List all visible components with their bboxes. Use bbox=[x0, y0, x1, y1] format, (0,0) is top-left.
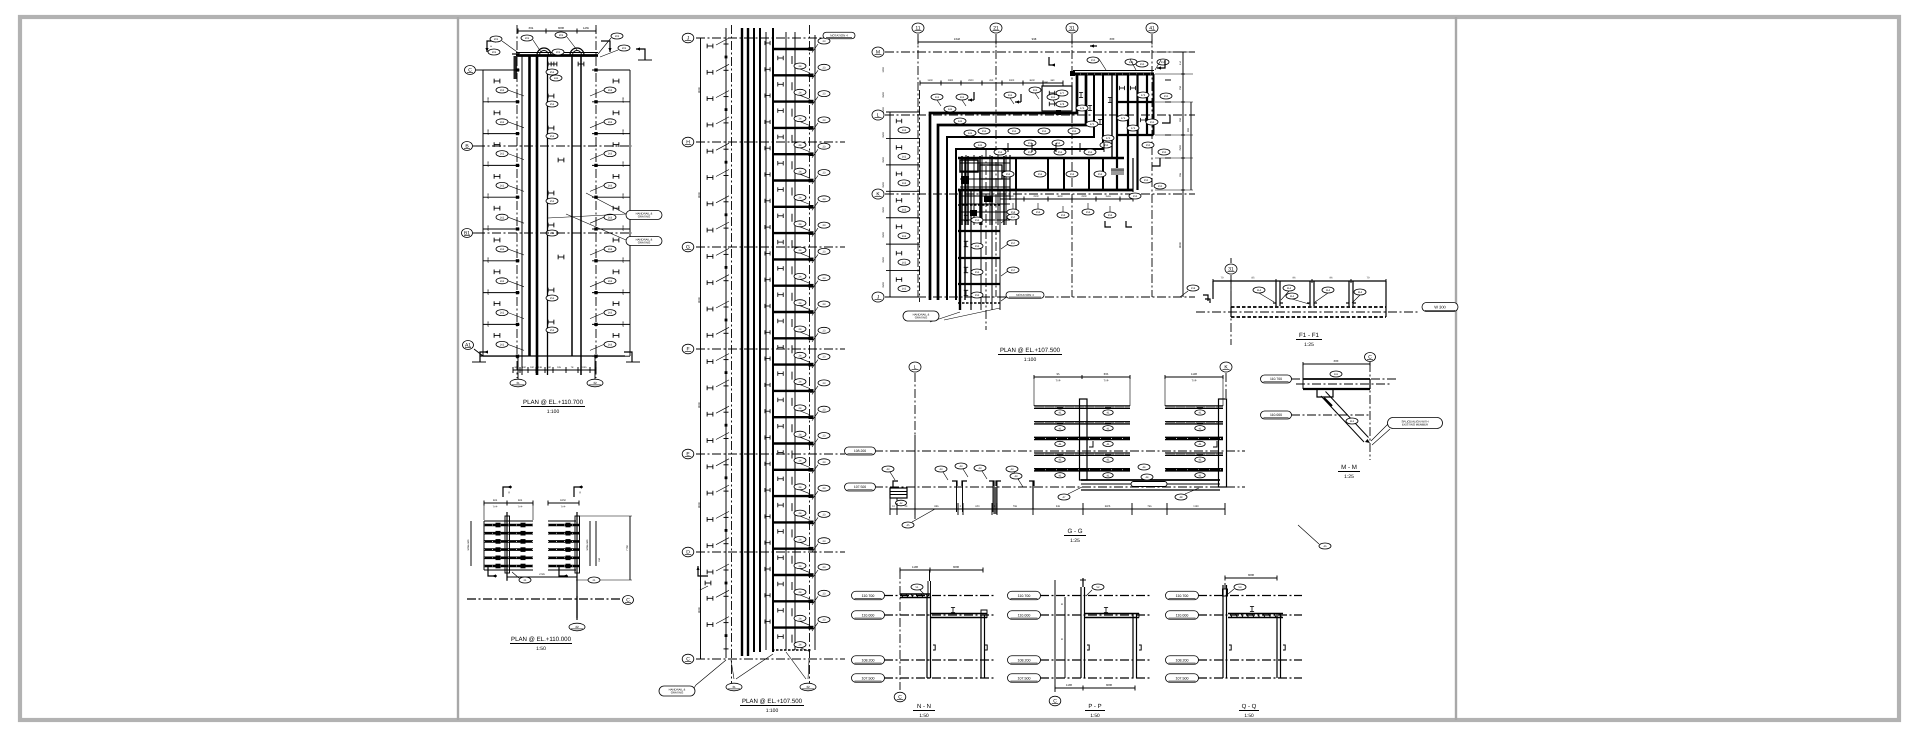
W300 stadium F1 bbox=[1422, 303, 1458, 312]
svg-text:1000: 1000 bbox=[882, 67, 885, 73]
svg-text:152: 152 bbox=[1070, 173, 1075, 176]
svg-text:TYP: TYP bbox=[561, 506, 566, 509]
svg-text:Q - Q: Q - Q bbox=[1242, 703, 1257, 710]
svg-text:151: 151 bbox=[998, 151, 1003, 154]
G-G body bbox=[914, 373, 916, 435]
svg-text:160: 160 bbox=[530, 366, 535, 369]
svg-text:1:50: 1:50 bbox=[1090, 713, 1100, 719]
svg-text:262: 262 bbox=[500, 312, 505, 315]
grid bubble G center strip bbox=[682, 242, 694, 252]
svg-text:174: 174 bbox=[1080, 107, 1085, 110]
svg-text:2900: 2900 bbox=[948, 79, 954, 82]
notation box center top bbox=[823, 32, 855, 39]
svg-text:836: 836 bbox=[934, 505, 939, 508]
svg-text:155: 155 bbox=[1056, 142, 1061, 145]
bottom boundary left plan bbox=[480, 355, 625, 357]
svg-text:2000: 2000 bbox=[622, 257, 625, 263]
svg-text:1100: 1100 bbox=[1066, 683, 1072, 687]
callout leaders top bbox=[502, 41, 520, 54]
svg-text:201: 201 bbox=[494, 38, 499, 41]
notation box L-plan bbox=[1006, 292, 1044, 299]
svg-text:155: 155 bbox=[1012, 130, 1017, 133]
grid bubble C M-M bbox=[1365, 353, 1376, 362]
svg-text:114: 114 bbox=[1257, 289, 1262, 292]
svg-text:110.000: 110.000 bbox=[1176, 613, 1189, 617]
svg-text:160: 160 bbox=[547, 366, 552, 369]
bottom callout 31 bbox=[510, 379, 526, 387]
svg-text:2900: 2900 bbox=[1009, 79, 1015, 82]
svg-text:2500: 2500 bbox=[882, 257, 885, 263]
svg-text:251: 251 bbox=[550, 200, 555, 203]
svg-text:155: 155 bbox=[1072, 130, 1077, 133]
svg-text:153: 153 bbox=[1036, 211, 1041, 214]
svg-text:365: 365 bbox=[1104, 372, 1109, 376]
grid line B across bbox=[476, 145, 632, 147]
grid bubble C N-N bbox=[894, 692, 906, 702]
grid bubble K L-plan left bbox=[872, 189, 884, 199]
svg-text:165: 165 bbox=[557, 366, 562, 369]
svg-text:201: 201 bbox=[525, 37, 530, 40]
bottom callout 32 bbox=[587, 379, 603, 387]
svg-text:8000: 8000 bbox=[698, 297, 701, 303]
bottom dim row bbox=[513, 369, 596, 371]
svg-text:141: 141 bbox=[968, 132, 973, 135]
left panel divider bbox=[457, 17, 459, 720]
svg-text:162: 162 bbox=[902, 288, 907, 291]
callout oval bbox=[611, 33, 623, 39]
svg-text:2000: 2000 bbox=[487, 97, 490, 103]
svg-text:NOTATION 4: NOTATION 4 bbox=[1016, 293, 1034, 297]
svg-text:241: 241 bbox=[554, 77, 559, 80]
svg-text:156: 156 bbox=[975, 271, 980, 274]
grid bubble L G-G bbox=[909, 362, 921, 372]
grid bubble H center strip bbox=[682, 137, 694, 147]
svg-text:263: 263 bbox=[608, 280, 613, 283]
icon under beam bbox=[551, 62, 557, 67]
svg-text:926: 926 bbox=[493, 499, 498, 502]
svg-text:1:100: 1:100 bbox=[1024, 357, 1037, 363]
svg-text:201: 201 bbox=[559, 34, 564, 37]
svg-text:1465: 1465 bbox=[583, 26, 590, 30]
svg-text:M - M: M - M bbox=[1341, 464, 1357, 471]
svg-text:114: 114 bbox=[1358, 291, 1363, 294]
svg-text:3600: 3600 bbox=[1029, 79, 1035, 82]
svg-text:1:25: 1:25 bbox=[1344, 474, 1354, 480]
svg-text:1346: 1346 bbox=[954, 37, 961, 41]
svg-text:2900: 2900 bbox=[1033, 195, 1039, 198]
svg-text:262: 262 bbox=[500, 185, 505, 188]
svg-text:262: 262 bbox=[500, 216, 505, 219]
svg-text:2000: 2000 bbox=[487, 289, 490, 295]
grid bubble J center strip bbox=[682, 33, 694, 43]
svg-text:F1 - F1: F1 - F1 bbox=[1299, 332, 1319, 339]
svg-text:2900: 2900 bbox=[1081, 195, 1087, 198]
svg-text:1190: 1190 bbox=[1191, 372, 1197, 376]
svg-text:NOTATION 4: NOTATION 4 bbox=[830, 34, 848, 38]
svg-text:5786+500: 5786+500 bbox=[467, 539, 470, 550]
svg-text:263: 263 bbox=[608, 89, 613, 92]
section N-N body bbox=[884, 595, 995, 597]
svg-text:112: 112 bbox=[1350, 420, 1355, 423]
svg-text:263: 263 bbox=[608, 153, 613, 156]
svg-text:262: 262 bbox=[500, 280, 505, 283]
svg-text:2500: 2500 bbox=[882, 182, 885, 188]
svg-text:153: 153 bbox=[1086, 211, 1091, 214]
svg-text:1:25: 1:25 bbox=[1070, 538, 1080, 544]
svg-text:EXISTING MEMBER: EXISTING MEMBER bbox=[1402, 423, 1428, 427]
svg-text:262: 262 bbox=[500, 121, 505, 124]
svg-text:155: 155 bbox=[1158, 185, 1163, 188]
svg-text:251: 251 bbox=[550, 297, 555, 300]
svg-text:TYP: TYP bbox=[1192, 380, 1197, 383]
svg-text:3600: 3600 bbox=[558, 26, 565, 30]
svg-text:114: 114 bbox=[1287, 287, 1292, 290]
svg-text:155: 155 bbox=[1140, 63, 1145, 66]
svg-text:162: 162 bbox=[902, 129, 907, 132]
svg-text:8000: 8000 bbox=[1179, 242, 1182, 248]
section cut top-right bbox=[601, 41, 610, 52]
svg-text:157: 157 bbox=[1011, 269, 1016, 272]
svg-text:1:100: 1:100 bbox=[547, 409, 560, 415]
svg-text:8000: 8000 bbox=[698, 502, 701, 508]
svg-text:3825: 3825 bbox=[1105, 505, 1111, 508]
svg-text:161: 161 bbox=[960, 96, 965, 99]
handrail grating callout center bbox=[659, 686, 695, 696]
svg-text:262: 262 bbox=[500, 344, 505, 347]
plan 110.000 body bbox=[484, 524, 533, 527]
svg-text:155: 155 bbox=[1091, 59, 1096, 62]
section cut right upper bbox=[636, 49, 645, 60]
svg-text:8000: 8000 bbox=[698, 402, 701, 408]
svg-text:107.500: 107.500 bbox=[862, 676, 875, 680]
svg-text:263: 263 bbox=[608, 312, 613, 315]
left plan body bbox=[518, 30, 596, 32]
svg-text:1:50: 1:50 bbox=[1244, 713, 1254, 719]
svg-text:620: 620 bbox=[975, 505, 980, 508]
svg-text:136: 136 bbox=[538, 366, 543, 369]
splice callout M-M bbox=[1388, 418, 1443, 429]
svg-text:2000: 2000 bbox=[487, 193, 490, 199]
svg-text:251: 251 bbox=[550, 103, 555, 106]
center callout 32 bbox=[800, 683, 816, 691]
L-plan body bbox=[918, 41, 1152, 43]
svg-text:2500: 2500 bbox=[882, 282, 885, 288]
section cut bottom-right bbox=[624, 352, 632, 362]
svg-text:156: 156 bbox=[975, 219, 980, 222]
svg-text:2000: 2000 bbox=[622, 97, 625, 103]
grid bubble 41 L-plan top bbox=[1146, 23, 1158, 33]
level 108.200 G-G bbox=[845, 447, 876, 455]
grid bubble A1 left plan bbox=[463, 341, 474, 350]
callout oval bbox=[488, 49, 500, 55]
svg-text:TYP: TYP bbox=[518, 506, 523, 509]
svg-text:7500: 7500 bbox=[1179, 145, 1182, 151]
svg-text:114: 114 bbox=[1326, 289, 1331, 292]
svg-text:998: 998 bbox=[1032, 37, 1037, 41]
svg-text:2500: 2500 bbox=[882, 92, 885, 98]
svg-text:B: B bbox=[1061, 603, 1063, 606]
section cut bottom-left bbox=[480, 352, 488, 362]
svg-text:178: 178 bbox=[1060, 103, 1065, 106]
leader line mid plan bbox=[548, 214, 626, 218]
level 110.700 M-M bbox=[1261, 375, 1292, 383]
svg-text:155: 155 bbox=[1133, 195, 1138, 198]
svg-text:177: 177 bbox=[1060, 92, 1065, 95]
svg-text:8000: 8000 bbox=[698, 87, 701, 93]
svg-text:108.200: 108.200 bbox=[854, 449, 866, 453]
center strip body bbox=[696, 37, 845, 39]
svg-text:110.700: 110.700 bbox=[1270, 377, 1282, 381]
svg-text:2000: 2000 bbox=[487, 161, 490, 167]
svg-text:262: 262 bbox=[500, 89, 505, 92]
svg-text:161: 161 bbox=[1051, 96, 1056, 99]
grid bubble 31 F1 bbox=[1225, 264, 1237, 274]
svg-text:201: 201 bbox=[556, 51, 561, 54]
svg-text:3600: 3600 bbox=[953, 565, 960, 569]
svg-text:2900: 2900 bbox=[968, 79, 974, 82]
grid bubble 31 L-plan top bbox=[1066, 23, 1078, 33]
svg-text:600: 600 bbox=[1110, 37, 1115, 41]
svg-text:2745: 2745 bbox=[539, 573, 545, 576]
svg-text:160: 160 bbox=[522, 366, 527, 369]
svg-text:2500: 2500 bbox=[882, 132, 885, 138]
svg-text:PLAN @ EL.+107.500: PLAN @ EL.+107.500 bbox=[1000, 347, 1061, 354]
svg-text:110.700: 110.700 bbox=[1018, 594, 1031, 598]
svg-text:107.500: 107.500 bbox=[1176, 676, 1189, 680]
svg-text:PLAN @ EL.+107.500: PLAN @ EL.+107.500 bbox=[742, 698, 803, 705]
svg-text:765: 765 bbox=[1179, 172, 1182, 177]
svg-text:1100: 1100 bbox=[912, 565, 918, 569]
svg-text:263: 263 bbox=[608, 121, 613, 124]
svg-text:251: 251 bbox=[550, 329, 555, 332]
center strip bottom bbox=[772, 649, 812, 651]
svg-text:2000: 2000 bbox=[487, 129, 490, 135]
grid bubble B1 left plan bbox=[462, 229, 473, 238]
grid bubble C center strip bbox=[682, 654, 694, 664]
svg-text:360: 360 bbox=[1050, 79, 1055, 82]
grid bubble D center strip bbox=[682, 547, 694, 557]
svg-text:796: 796 bbox=[1013, 505, 1018, 508]
svg-text:GRATING: GRATING bbox=[671, 691, 684, 695]
level 107.500 G-G bbox=[845, 483, 876, 491]
svg-text:GRATING: GRATING bbox=[915, 316, 928, 320]
handrail grating callout 2 bbox=[626, 237, 662, 246]
svg-text:108.200: 108.200 bbox=[862, 658, 875, 662]
svg-text:8000: 8000 bbox=[698, 192, 701, 198]
svg-text:2000: 2000 bbox=[622, 161, 625, 167]
svg-text:155: 155 bbox=[982, 130, 987, 133]
svg-text:152: 152 bbox=[1006, 173, 1011, 176]
svg-text:263: 263 bbox=[608, 216, 613, 219]
svg-text:2000: 2000 bbox=[622, 321, 625, 327]
svg-text:600: 600 bbox=[1010, 195, 1015, 198]
svg-text:262: 262 bbox=[500, 248, 505, 251]
grid bubble E center strip bbox=[682, 449, 694, 459]
svg-text:108.200: 108.200 bbox=[1176, 658, 1189, 662]
svg-text:G - G: G - G bbox=[1067, 528, 1082, 535]
grid bubble C left plan bbox=[465, 66, 476, 75]
svg-text:GRATING: GRATING bbox=[638, 215, 651, 219]
callout oval bbox=[552, 49, 564, 55]
svg-text:107.500: 107.500 bbox=[1018, 676, 1031, 680]
callout oval bbox=[618, 45, 630, 51]
svg-text:1:25: 1:25 bbox=[1304, 342, 1314, 348]
section Q-Q body bbox=[1198, 595, 1302, 597]
svg-text:176: 176 bbox=[1106, 137, 1111, 140]
svg-text:95: 95 bbox=[1056, 372, 1060, 376]
svg-text:157: 157 bbox=[1011, 216, 1016, 219]
svg-text:161: 161 bbox=[935, 96, 940, 99]
svg-text:161: 161 bbox=[1033, 89, 1038, 92]
svg-text:110.000: 110.000 bbox=[1018, 613, 1031, 617]
svg-text:111: 111 bbox=[1334, 373, 1338, 376]
callout oval bbox=[555, 32, 567, 38]
grid bubble 21 L-plan top bbox=[990, 23, 1002, 33]
grid bubble B left plan bbox=[462, 142, 473, 151]
svg-text:152: 152 bbox=[1038, 173, 1043, 176]
svg-text:766: 766 bbox=[1147, 505, 1152, 508]
svg-text:162: 162 bbox=[902, 156, 907, 159]
svg-text:153: 153 bbox=[1061, 214, 1066, 217]
svg-text:2500: 2500 bbox=[882, 232, 885, 238]
svg-text:2000: 2000 bbox=[622, 225, 625, 231]
svg-text:110.700: 110.700 bbox=[862, 594, 875, 598]
grid bubble F center strip bbox=[682, 344, 694, 354]
M-M body bbox=[1369, 363, 1371, 460]
svg-text:2000: 2000 bbox=[487, 225, 490, 231]
svg-text:110.000: 110.000 bbox=[862, 613, 875, 617]
svg-text:152: 152 bbox=[1098, 173, 1103, 176]
svg-text:PLAN @ EL.+110.700: PLAN @ EL.+110.700 bbox=[523, 399, 584, 406]
svg-text:2000: 2000 bbox=[622, 289, 625, 295]
svg-text:141: 141 bbox=[978, 144, 983, 147]
svg-text:926: 926 bbox=[518, 499, 523, 502]
svg-text:1130: 1130 bbox=[1193, 505, 1199, 508]
svg-text:GRATING: GRATING bbox=[638, 241, 651, 245]
svg-text:760: 760 bbox=[1179, 117, 1182, 122]
svg-text:251: 251 bbox=[550, 71, 555, 74]
svg-text:150: 150 bbox=[598, 557, 601, 562]
svg-text:173: 173 bbox=[1141, 94, 1146, 97]
svg-text:1:50: 1:50 bbox=[919, 713, 929, 719]
svg-text:156: 156 bbox=[975, 245, 980, 248]
svg-text:TYP: TYP bbox=[1056, 380, 1061, 383]
svg-text:263: 263 bbox=[608, 185, 613, 188]
svg-text:2500: 2500 bbox=[882, 207, 885, 213]
svg-text:141: 141 bbox=[948, 108, 953, 111]
svg-text:161: 161 bbox=[1008, 94, 1013, 97]
svg-text:141: 141 bbox=[958, 120, 963, 123]
center callout 31 bbox=[726, 683, 742, 691]
svg-text:155: 155 bbox=[1164, 95, 1169, 98]
svg-text:263: 263 bbox=[608, 248, 613, 251]
section P-P body bbox=[1040, 595, 1152, 597]
svg-text:155: 155 bbox=[1150, 121, 1155, 124]
svg-text:155: 155 bbox=[1146, 144, 1151, 147]
svg-text:155: 155 bbox=[1042, 130, 1047, 133]
svg-text:604: 604 bbox=[529, 26, 534, 30]
svg-text:263: 263 bbox=[608, 344, 613, 347]
svg-text:TYP: TYP bbox=[1104, 380, 1109, 383]
svg-text:110.000: 110.000 bbox=[1270, 413, 1282, 417]
svg-text:2000: 2000 bbox=[487, 321, 490, 327]
svg-text:201: 201 bbox=[622, 47, 627, 50]
svg-text:157: 157 bbox=[1011, 242, 1016, 245]
handrail grating callout L-plan bbox=[903, 311, 939, 321]
svg-text:290: 290 bbox=[989, 79, 994, 82]
callout oval bbox=[490, 36, 502, 42]
svg-text:155: 155 bbox=[1162, 151, 1167, 154]
svg-text:162: 162 bbox=[902, 261, 907, 264]
svg-text:360: 360 bbox=[1044, 81, 1049, 84]
F1-F1 body bbox=[1230, 275, 1232, 345]
svg-text:162: 162 bbox=[902, 208, 907, 211]
svg-text:2000: 2000 bbox=[622, 193, 625, 199]
svg-text:990: 990 bbox=[1187, 127, 1190, 132]
svg-text:201: 201 bbox=[615, 35, 620, 38]
svg-text:155: 155 bbox=[1104, 144, 1109, 147]
svg-text:3600: 3600 bbox=[1106, 683, 1113, 687]
grid line B1 across bbox=[476, 232, 632, 234]
svg-text:600: 600 bbox=[1334, 359, 1339, 363]
svg-text:3600: 3600 bbox=[1057, 195, 1063, 198]
svg-text:8000: 8000 bbox=[698, 607, 701, 613]
grid bubble C P-P bbox=[1049, 696, 1061, 706]
grid bubble M L-plan left bbox=[872, 47, 884, 57]
right panel divider bbox=[1455, 17, 1457, 720]
svg-text:3600: 3600 bbox=[1248, 573, 1255, 577]
svg-text:1300: 1300 bbox=[927, 79, 933, 82]
svg-text:151: 151 bbox=[1058, 151, 1063, 154]
svg-text:1:100: 1:100 bbox=[766, 708, 779, 714]
grid bubble L L-plan left bbox=[872, 110, 884, 120]
svg-text:110.700: 110.700 bbox=[1176, 594, 1189, 598]
svg-text:107.500: 107.500 bbox=[854, 485, 866, 489]
svg-text:2500: 2500 bbox=[882, 157, 885, 163]
svg-text:PLAN @ EL.+110.000: PLAN @ EL.+110.000 bbox=[511, 636, 572, 643]
svg-text:2000: 2000 bbox=[487, 257, 490, 263]
svg-text:1850: 1850 bbox=[560, 499, 566, 502]
svg-text:153: 153 bbox=[1108, 214, 1113, 217]
svg-text:2000: 2000 bbox=[622, 129, 625, 135]
grid bubble J L-plan left bbox=[872, 292, 884, 302]
svg-text:P - P: P - P bbox=[1088, 703, 1101, 710]
svg-text:114: 114 bbox=[1290, 295, 1295, 298]
svg-text:750: 750 bbox=[1179, 85, 1182, 90]
svg-text:B: B bbox=[1061, 638, 1063, 641]
svg-text:5786+500: 5786+500 bbox=[586, 539, 589, 550]
callout oval bbox=[521, 35, 533, 41]
svg-text:162: 162 bbox=[902, 182, 907, 185]
svg-text:1546: 1546 bbox=[1105, 195, 1111, 198]
svg-text:151: 151 bbox=[1088, 151, 1093, 154]
svg-text:201: 201 bbox=[492, 51, 497, 54]
svg-text:155: 155 bbox=[1144, 179, 1149, 182]
svg-text:1135: 1135 bbox=[581, 366, 587, 369]
svg-text:N - N: N - N bbox=[917, 703, 931, 710]
svg-text:171: 171 bbox=[1121, 117, 1126, 120]
svg-text:7750: 7750 bbox=[626, 545, 629, 551]
grid bubble 11 L-plan top bbox=[912, 23, 924, 33]
svg-text:108.200: 108.200 bbox=[1018, 658, 1031, 662]
svg-text:156: 156 bbox=[975, 294, 980, 297]
grid bubble K G-G bbox=[1220, 362, 1232, 372]
svg-text:262: 262 bbox=[500, 153, 505, 156]
section cut top-left bbox=[487, 41, 496, 52]
svg-text:162: 162 bbox=[902, 235, 907, 238]
svg-text:1:50: 1:50 bbox=[536, 646, 546, 652]
svg-text:414: 414 bbox=[1179, 60, 1182, 65]
